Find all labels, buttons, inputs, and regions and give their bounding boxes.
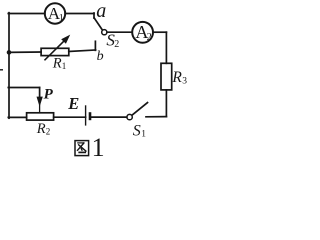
wire left vertical xyxy=(8,13,10,119)
label R3 xyxy=(171,69,187,87)
svg-text:1: 1 xyxy=(59,13,64,24)
svg-text:R: R xyxy=(171,69,182,86)
label S2 xyxy=(106,30,119,50)
wire A2 to right corner xyxy=(153,31,166,33)
label A1 xyxy=(48,4,64,24)
svg-text:R: R xyxy=(36,121,46,137)
caption character tu (figure) xyxy=(75,141,89,156)
node a contact stub xyxy=(93,13,95,18)
label E xyxy=(67,94,79,113)
label b xyxy=(97,49,104,64)
wire S2 to A2 xyxy=(107,31,132,33)
caption numeral 1 xyxy=(92,133,105,162)
switch S1 lever (open) xyxy=(132,103,148,116)
svg-text:3: 3 xyxy=(182,77,187,87)
wire bottom left xyxy=(8,116,26,118)
switch S2 pivot xyxy=(102,30,107,35)
wire battery to S1 xyxy=(91,116,127,118)
svg-text:2: 2 xyxy=(114,39,119,50)
rheostat R1 xyxy=(41,48,69,55)
slider P arrow head xyxy=(37,97,43,107)
wire right vertical upper xyxy=(165,32,167,63)
svg-text:E: E xyxy=(67,94,79,113)
label R2 xyxy=(36,121,51,137)
battery E negative plate (short thick) xyxy=(89,112,92,120)
label R1 xyxy=(52,55,67,71)
svg-text:2: 2 xyxy=(46,126,51,136)
wire row2 left to R1 xyxy=(8,51,41,53)
label a xyxy=(96,0,106,22)
svg-text:2: 2 xyxy=(147,32,152,43)
svg-text:P: P xyxy=(44,87,54,103)
rheostat R1 arrow head xyxy=(61,35,70,44)
ammeter A2 xyxy=(132,22,153,43)
svg-text:S: S xyxy=(133,122,141,139)
node b contact stub xyxy=(94,41,96,50)
wire slider bracket vertical xyxy=(39,88,41,99)
wire R1 to node b xyxy=(69,50,96,52)
svg-text:1: 1 xyxy=(141,130,146,140)
switch S2 lever (closed to a) xyxy=(94,18,102,30)
wire top horizontal right to contact a xyxy=(65,13,94,15)
resistor R3 xyxy=(161,63,172,90)
wire R2 to battery xyxy=(54,116,86,118)
wire top horizontal left (battery loop top) xyxy=(8,13,45,15)
battery E positive plate (long thin) xyxy=(85,106,87,125)
junction node dot xyxy=(7,50,12,55)
label S1 xyxy=(133,122,146,139)
ammeter A1 xyxy=(45,3,65,23)
wire bottom right to switch contact xyxy=(146,116,166,118)
left edge tick mark xyxy=(0,69,2,71)
wire right vertical lower xyxy=(165,90,167,117)
wire slider bracket horizontal xyxy=(8,87,39,89)
svg-text:a: a xyxy=(96,0,106,22)
svg-text:1: 1 xyxy=(92,133,105,161)
label P xyxy=(44,87,54,103)
svg-text:R: R xyxy=(52,55,62,71)
switch S1 pivot xyxy=(127,114,132,119)
svg-text:1: 1 xyxy=(62,61,67,71)
slider P arrow tail to R2 xyxy=(39,104,41,113)
rheostat R1 arrow shaft xyxy=(45,41,64,60)
label A2 xyxy=(135,22,151,43)
rheostat R2 xyxy=(27,113,54,120)
svg-text:b: b xyxy=(97,49,104,64)
